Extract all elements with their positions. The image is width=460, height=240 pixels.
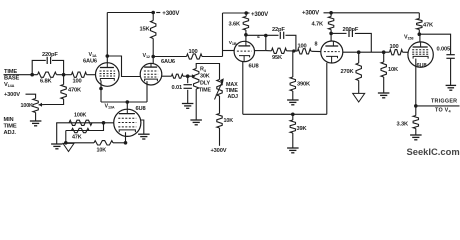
wire 200pF line — [331, 32, 346, 34]
tube V13A 6U8 — [114, 109, 141, 136]
svg-text:TIME: TIME — [199, 88, 211, 94]
node +300V rail A — [151, 11, 155, 15]
wire 22pF line — [246, 34, 279, 36]
resistor 100K — [69, 120, 92, 125]
node trigger junction — [414, 104, 418, 108]
svg-text:15K: 15K — [140, 27, 151, 33]
svg-text:470K: 470K — [68, 88, 82, 94]
resistor 3.3K — [413, 116, 418, 129]
svg-text:100: 100 — [73, 79, 82, 85]
wire V13A to ground right — [141, 120, 144, 134]
wire 100K to V13A grid — [56, 122, 114, 124]
svg-text:BASE: BASE — [4, 75, 20, 81]
svg-text:200pF: 200pF — [343, 27, 359, 33]
svg-text:TIME: TIME — [4, 124, 17, 130]
ground below 390K — [287, 99, 299, 101]
svg-text:6AU6: 6AU6 — [83, 58, 97, 64]
wire loop left vertical — [32, 60, 46, 74]
svg-text:47K: 47K — [423, 22, 434, 28]
svg-text:100: 100 — [189, 49, 198, 55]
svg-text:6.8K: 6.8K — [40, 79, 52, 85]
resistor 100 output — [390, 50, 403, 55]
resistor 3.6K — [245, 13, 247, 17]
ground below 10K — [378, 92, 390, 94]
wire plate riser mid-left — [245, 35, 247, 42]
wire 47K to chassis — [65, 131, 67, 143]
svg-text:DLY: DLY — [200, 81, 210, 87]
tube V1B 6AU6 — [140, 63, 162, 85]
wire input line — [4, 74, 38, 76]
node 47K plate — [418, 32, 422, 36]
resistor 6.8K — [38, 72, 57, 77]
resistor 470K — [63, 75, 65, 85]
svg-text:39K: 39K — [297, 126, 308, 132]
wire loop top right — [52, 60, 64, 74]
tube V158 6U8 — [408, 42, 433, 67]
wire 22pF right leg — [286, 35, 296, 51]
svg-text:0.005: 0.005 — [437, 47, 450, 53]
ground right of V13A — [138, 133, 150, 135]
wire trigger output — [416, 105, 460, 107]
ground below 39K — [287, 147, 299, 149]
capacitor 0.01 — [187, 76, 189, 83]
svg-text:100: 100 — [298, 43, 307, 49]
ground below 3.3K — [410, 134, 422, 136]
svg-text:+300V: +300V — [162, 10, 180, 17]
svg-text:6AU6: 6AU6 — [161, 59, 175, 65]
resistor 39K — [292, 114, 294, 120]
wire V1A plate riser — [106, 13, 108, 64]
svg-text:100: 100 — [390, 44, 399, 50]
wire top rail C — [324, 12, 420, 14]
tube triode pin8 — [321, 41, 343, 63]
wire plate to 0.005 — [419, 34, 450, 54]
wire plate riser right — [419, 34, 421, 42]
wire between 6.8K and junction — [57, 74, 72, 76]
svg-text:TRIGGER: TRIGGER — [431, 98, 457, 104]
svg-text:4.7K: 4.7K — [312, 21, 324, 27]
node 10K top — [382, 50, 386, 54]
resistor 15K — [152, 13, 154, 21]
wire 200pF right leg — [355, 33, 371, 52]
svg-text:30K: 30K — [200, 74, 210, 80]
node 39K top — [291, 113, 295, 117]
wire mid cathode left — [242, 62, 244, 115]
svg-text:270K: 270K — [341, 69, 355, 75]
svg-text:10K: 10K — [388, 67, 399, 73]
resistor 100 schmitt — [298, 49, 312, 54]
svg-text:+300V: +300V — [302, 10, 320, 17]
svg-text:95K: 95K — [272, 55, 283, 61]
wire 0.005 to ground — [450, 58, 452, 85]
capacitor C 220pF — [46, 57, 48, 64]
svg-text:0.01: 0.01 — [172, 85, 182, 91]
svg-text:100K: 100K — [74, 112, 87, 118]
resistor 390K — [292, 51, 294, 77]
resistor 270K — [358, 52, 360, 63]
resistor 4.7K — [330, 13, 332, 17]
ground below 100K — [51, 143, 63, 145]
wire schmitt output line — [343, 51, 390, 53]
svg-text:10K: 10K — [97, 147, 107, 153]
potentiometer 100K MIN TIME — [33, 99, 38, 113]
node plate 4.7K — [329, 32, 333, 36]
svg-text:220pF: 220pF — [42, 52, 58, 58]
resistor 10K cathode — [66, 142, 94, 144]
node +300V rail B — [244, 11, 248, 15]
svg-text:MIN: MIN — [4, 117, 14, 123]
ground below R4 — [190, 119, 202, 121]
resistor 95K — [266, 50, 272, 52]
resistor 10K delay leg — [219, 96, 221, 114]
wire grid stub — [223, 50, 235, 52]
tube V15 6U8 triode — [234, 41, 254, 61]
svg-text:22pF: 22pF — [272, 27, 285, 33]
wire V1A plate to V1B grid — [106, 54, 110, 58]
resistor 47K — [418, 13, 420, 19]
chassis arrow below 270K — [353, 93, 365, 102]
node plate 3.6K — [244, 33, 248, 37]
capacitor 0.005 — [446, 54, 454, 56]
wire mid cathode right — [326, 63, 328, 115]
svg-text:3.3K: 3.3K — [397, 121, 409, 127]
tube V1A 6AU6 — [96, 63, 120, 87]
wire V1B cathode down — [146, 81, 148, 102]
wire grid feed vertical — [222, 13, 224, 57]
wire cathode bus long — [243, 113, 327, 115]
wire plate riser pin8 — [330, 33, 332, 41]
wire top rail A — [107, 12, 153, 14]
wire 100 to V1A grid — [87, 74, 96, 76]
capacitor 22pF — [279, 32, 281, 39]
ground below 0.01 — [182, 103, 194, 105]
wire grid ext stub mid-left — [254, 50, 265, 52]
chassis ground arrow — [63, 143, 74, 151]
potentiometer MAX TIME ADJ — [217, 80, 222, 97]
node timing junction — [186, 74, 190, 78]
node junction 470K — [62, 73, 66, 77]
svg-text:+300V: +300V — [4, 92, 20, 98]
svg-text:100K: 100K — [21, 103, 34, 109]
wire 22pF left leg — [265, 36, 267, 51]
wire right cathode — [415, 59, 417, 116]
node 270K top — [357, 50, 361, 54]
svg-text:47K: 47K — [72, 134, 82, 140]
ground below 0.005 — [446, 84, 457, 86]
svg-text:6U8: 6U8 — [249, 64, 259, 70]
wire V1A cathode down — [100, 81, 102, 103]
node 4.7K top — [329, 11, 333, 15]
svg-text:6U8: 6U8 — [136, 106, 146, 112]
wire V13A plate riser — [126, 102, 128, 109]
svg-text:3.6K: 3.6K — [229, 21, 241, 27]
svg-text:390K: 390K — [297, 81, 311, 87]
node grid2 junction — [292, 49, 295, 52]
capacitor 200pF — [348, 30, 350, 37]
wire top rail B — [223, 12, 247, 14]
svg-text:SeekIC.com: SeekIC.com — [407, 146, 460, 157]
wire 100K left to ground — [56, 123, 58, 144]
svg-text:ADJ.: ADJ. — [4, 130, 17, 136]
node V1B plate junction — [151, 55, 155, 59]
svg-text:10K: 10K — [224, 118, 234, 124]
node junction input/220pF — [30, 73, 34, 77]
ground below pot — [30, 120, 42, 122]
node 22pF left — [264, 34, 268, 38]
svg-text:6U8: 6U8 — [417, 63, 427, 69]
wire cathode bus — [101, 101, 147, 103]
svg-text:8: 8 — [315, 41, 318, 47]
potentiometer R4 30K DLY TIME — [194, 69, 199, 90]
svg-text:+300V: +300V — [251, 11, 269, 18]
svg-text:ADJ: ADJ — [228, 94, 238, 100]
resistor 100 coupling — [153, 56, 186, 58]
resistor 10K divider — [383, 52, 385, 62]
svg-text:+300V: +300V — [211, 148, 227, 154]
resistor 47K — [66, 123, 104, 131]
resistor R 100 input — [72, 72, 87, 77]
wire wiper to R4 — [188, 75, 192, 77]
svg-text:TIME: TIME — [4, 69, 17, 75]
wire V1B screen to timing node — [162, 75, 172, 77]
wire V13A cathode — [125, 132, 127, 143]
